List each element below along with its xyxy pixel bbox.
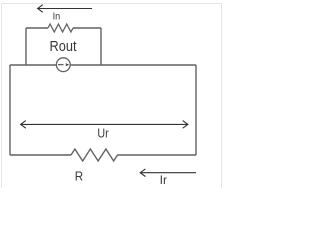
wire: outer loop left edge [9, 65, 11, 155]
wire: outer loop top edge (left of source) [10, 64, 56, 66]
resistor R [71, 149, 118, 161]
resistor Rout [48, 24, 73, 32]
svg-text:In: In [53, 11, 61, 22]
wire: outer loop bottom edge (right of R) [118, 154, 197, 156]
svg-text:Rout: Rout [50, 38, 78, 55]
current source [56, 58, 70, 72]
label In [53, 11, 61, 22]
svg-text:Ur: Ur [97, 125, 109, 140]
wire: outer loop bottom edge (left of R) [10, 154, 71, 156]
wire: Rout branch right edge [100, 28, 102, 65]
wire: outer loop right edge [195, 65, 197, 155]
wire: outer loop top edge (right of source) [71, 64, 197, 66]
label Ur [97, 125, 109, 140]
current arrow Ir [140, 169, 196, 177]
label Ir [160, 173, 167, 187]
label R [75, 169, 83, 184]
svg-text:R: R [75, 169, 83, 184]
wire: Rout branch top edge (right of Rout) [73, 27, 101, 29]
current arrow In [38, 5, 92, 13]
label Rout [50, 38, 78, 55]
voltage arrow Ur [21, 121, 188, 129]
wire: Rout branch top edge (left of Rout) [26, 27, 48, 29]
wire: Rout branch left edge [25, 28, 27, 65]
svg-text:Ir: Ir [160, 173, 167, 187]
